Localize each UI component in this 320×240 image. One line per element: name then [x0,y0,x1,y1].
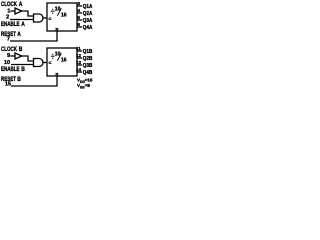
label divide 10/16 B [51,52,67,64]
wire [43,62,47,64]
wire [11,55,16,57]
counter block A [47,3,77,31]
output Q4B [77,71,82,73]
svg-text:Q3A: Q3A [83,18,93,24]
svg-text:13: 13 [76,60,82,65]
wire reset A [10,31,57,41]
wire reset B [11,76,57,86]
svg-text:B: B [21,66,25,73]
svg-text:Q2A: Q2A [83,11,93,17]
label VSS=8 [77,83,90,89]
svg-text:ENABLE: ENABLE [1,21,20,28]
wire [10,19,34,21]
svg-text:=8: =8 [85,83,91,88]
svg-text:12: 12 [76,53,82,58]
output Q4A [77,26,82,28]
svg-text:A: A [17,31,21,38]
wire [22,11,34,16]
svg-text:16: 16 [61,57,67,63]
svg-text:CLOCK: CLOCK [1,1,17,8]
label VDD=16 [77,78,93,84]
wire [22,56,34,61]
svg-text:B: B [17,76,21,83]
svg-text:B: B [19,46,23,53]
svg-text:=16: =16 [85,78,93,83]
output Q1B [77,50,82,52]
svg-text:7: 7 [7,37,10,43]
wire [43,17,47,19]
svg-text:CLOCK: CLOCK [1,46,17,53]
output Q2B [77,57,82,59]
svg-text:A: A [19,1,23,8]
svg-text:R: R [56,71,59,76]
svg-text:2: 2 [6,14,9,20]
svg-text:Q4A: Q4A [83,25,93,31]
svg-text:Q3B: Q3B [83,63,93,69]
svg-text:C: C [49,16,52,21]
svg-text:11: 11 [76,46,81,51]
output Q3A [77,19,82,21]
output Q3B [77,64,82,66]
counter block B [47,48,77,76]
svg-text:16: 16 [61,12,67,18]
buffer A [15,8,22,14]
buffer B [15,53,22,59]
svg-text:Q1A: Q1A [83,4,93,10]
svg-text:Q1B: Q1B [83,49,93,55]
AND gate B [34,59,44,67]
svg-text:14: 14 [76,67,82,72]
svg-text:ENABLE: ENABLE [1,66,20,73]
svg-text:15: 15 [5,82,12,88]
wire [11,64,34,66]
output Q1A [77,5,82,7]
label divide 10/16 A [51,7,67,19]
svg-text:A: A [21,21,25,28]
svg-text:R: R [56,26,59,31]
svg-text:Q2B: Q2B [83,56,93,62]
svg-text:C: C [49,60,52,65]
svg-text:Q4B: Q4B [83,70,93,76]
output Q2A [77,12,82,14]
wire [11,10,16,12]
AND gate A [34,14,44,22]
